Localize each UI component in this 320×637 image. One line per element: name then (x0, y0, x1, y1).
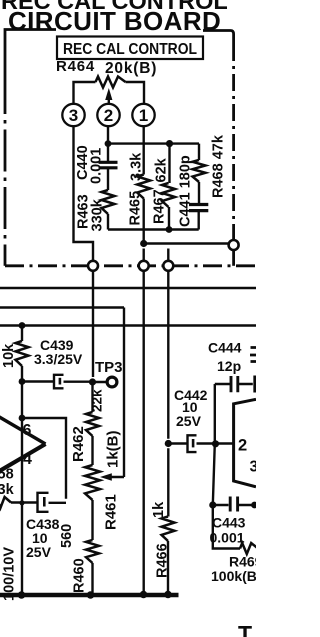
svg-text:100/10V: 100/10V (2, 547, 18, 601)
svg-text:C444: C444 (208, 340, 242, 356)
svg-text:3.3k: 3.3k (129, 152, 145, 181)
svg-text:1k: 1k (151, 501, 167, 518)
svg-text:12p: 12p (217, 358, 241, 374)
svg-text:1: 1 (139, 106, 148, 125)
svg-text:3: 3 (69, 106, 78, 125)
svg-text:REC CAL CONTROL: REC CAL CONTROL (63, 41, 197, 58)
svg-text:R465: R465 (128, 191, 144, 226)
svg-text:TP3: TP3 (95, 359, 123, 376)
svg-text:C441 180p: C441 180p (178, 155, 194, 227)
svg-text:100k(B: 100k(B (211, 568, 256, 584)
svg-text:6: 6 (23, 422, 32, 439)
svg-text:2: 2 (238, 437, 247, 455)
svg-text:R458: R458 (0, 467, 14, 483)
svg-text:4: 4 (23, 451, 32, 468)
svg-text:0.001: 0.001 (89, 148, 105, 184)
svg-text:3k: 3k (0, 482, 15, 498)
svg-text:R468 47k: R468 47k (211, 134, 227, 198)
svg-text:20k(B): 20k(B) (105, 60, 157, 77)
svg-text:560: 560 (59, 524, 75, 548)
svg-text:2: 2 (104, 106, 113, 125)
svg-text:22k: 22k (90, 389, 105, 412)
svg-text:R467: R467 (152, 189, 168, 224)
svg-text:C443: C443 (212, 515, 246, 531)
svg-text:R464: R464 (56, 58, 95, 75)
svg-text:R460: R460 (72, 558, 88, 593)
svg-text:3: 3 (250, 459, 257, 476)
svg-text:1k(B): 1k(B) (105, 430, 122, 468)
svg-text:R466: R466 (155, 543, 171, 578)
svg-text:25V: 25V (26, 544, 52, 560)
svg-text:330k: 330k (90, 198, 106, 231)
svg-text:3.3/25V: 3.3/25V (34, 351, 83, 367)
svg-text:10k: 10k (1, 343, 17, 368)
svg-text:R461: R461 (103, 494, 120, 530)
svg-text:CIRCUIT BOARD: CIRCUIT BOARD (8, 6, 221, 36)
svg-text:T: T (238, 621, 252, 637)
svg-text:R462: R462 (70, 426, 87, 462)
svg-text:62k: 62k (154, 157, 170, 182)
svg-text:0.001: 0.001 (210, 530, 245, 546)
svg-text:25V: 25V (176, 413, 202, 429)
